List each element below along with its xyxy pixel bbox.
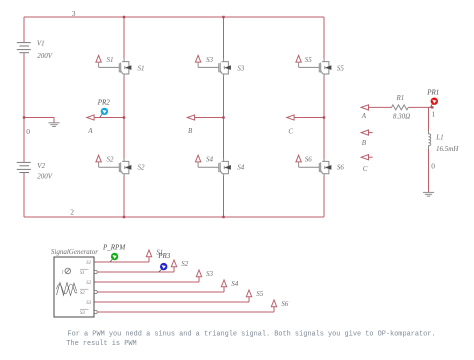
svg-text:S3: S3 bbox=[80, 311, 85, 316]
svg-text:S6: S6 bbox=[281, 300, 289, 308]
wire L1 to ground bbox=[428, 150, 430, 193]
junction top rail leg2 bbox=[222, 16, 224, 18]
svg-text:C: C bbox=[288, 128, 293, 136]
transistor S6 bbox=[299, 159, 332, 177]
connector S5 stair bbox=[246, 290, 251, 302]
wire left column V1 top bbox=[23, 17, 25, 42]
svg-text:S3: S3 bbox=[86, 301, 91, 306]
transistor S5 bbox=[299, 59, 332, 77]
svg-text:S4: S4 bbox=[206, 156, 214, 164]
probe PR3 bbox=[159, 270, 162, 272]
wire leg2 bottom bbox=[223, 176, 225, 217]
wire conn A to R1 bbox=[369, 106, 392, 108]
svg-text:3: 3 bbox=[72, 9, 76, 18]
inductor L1 bbox=[429, 131, 431, 149]
wire leg3 top bbox=[323, 17, 325, 59]
wire node 0 to V2 top bbox=[23, 118, 25, 162]
sg bubble row6 bbox=[94, 310, 97, 313]
svg-text:S1: S1 bbox=[107, 56, 114, 64]
svg-text:S1: S1 bbox=[80, 271, 85, 276]
connector A right bbox=[361, 105, 368, 110]
sg waveform bbox=[57, 283, 77, 296]
svg-text:0: 0 bbox=[26, 127, 30, 136]
wire R1 to node 1 bbox=[408, 106, 433, 108]
svg-text:A: A bbox=[361, 112, 367, 120]
junction node 1 right bbox=[431, 106, 433, 108]
svg-text:S3: S3 bbox=[237, 64, 245, 72]
junction node A bbox=[123, 116, 125, 118]
connector S1 stair bbox=[146, 250, 151, 262]
transistor S3 bbox=[198, 59, 231, 77]
connector S2 gate bbox=[96, 155, 101, 167]
transistor S1 bbox=[99, 59, 132, 77]
connector S4 gate bbox=[195, 155, 200, 167]
wire leg2 top bbox=[223, 17, 225, 59]
connector S1 gate bbox=[96, 55, 101, 67]
svg-text:V2: V2 bbox=[37, 162, 45, 170]
battery V1 bbox=[17, 43, 31, 53]
wire V2 bottom to rail 2 bbox=[23, 173, 25, 217]
wire sg row1 bbox=[94, 261, 149, 263]
svg-text:A: A bbox=[87, 127, 93, 135]
svg-text:1: 1 bbox=[432, 110, 436, 119]
resistor R1 bbox=[392, 105, 409, 110]
connector B out bbox=[187, 115, 194, 120]
svg-text:B: B bbox=[188, 127, 193, 135]
wire sg row3 bbox=[94, 281, 199, 283]
wire node A bbox=[94, 117, 124, 119]
transistor S2 bbox=[99, 159, 132, 177]
svg-text:S2: S2 bbox=[80, 291, 85, 296]
svg-text:S3: S3 bbox=[206, 270, 214, 278]
sg bubble row2 bbox=[94, 270, 97, 273]
sg bubble row4 bbox=[94, 290, 97, 293]
svg-text:1: 1 bbox=[62, 271, 64, 276]
svg-text:PR2: PR2 bbox=[97, 99, 111, 107]
svg-text:PR3: PR3 bbox=[157, 252, 171, 260]
wire node C bbox=[294, 117, 324, 119]
svg-text:S5: S5 bbox=[337, 64, 345, 72]
junction node B bbox=[222, 116, 224, 118]
junction node C bbox=[323, 116, 325, 118]
connector A out bbox=[87, 115, 94, 120]
svg-text:S2: S2 bbox=[181, 260, 189, 268]
wire leg2 mid bbox=[223, 76, 225, 159]
wire net 2 bottom rail bbox=[24, 216, 324, 218]
svg-text:S6: S6 bbox=[305, 156, 313, 164]
svg-text:S6: S6 bbox=[337, 163, 345, 171]
wire node 0 to ground bbox=[24, 118, 54, 123]
wire conn B stub bbox=[369, 132, 373, 134]
connector S5 gate bbox=[296, 55, 301, 67]
junction bottom rail leg2 bbox=[222, 216, 224, 218]
probe PR1 bbox=[431, 104, 433, 107]
svg-text:C: C bbox=[363, 165, 368, 173]
svg-text:S2: S2 bbox=[86, 281, 91, 286]
svg-text:0: 0 bbox=[431, 162, 435, 171]
svg-text:S1: S1 bbox=[86, 261, 91, 266]
svg-text:L1: L1 bbox=[435, 133, 443, 141]
svg-text:B: B bbox=[362, 139, 367, 147]
connector B right bbox=[361, 130, 368, 135]
svg-text:8.30Ω: 8.30Ω bbox=[393, 112, 410, 120]
svg-text:S4: S4 bbox=[237, 163, 245, 171]
svg-text:For a PWM you nedd a sinus and: For a PWM you nedd a sinus and a triangl… bbox=[68, 330, 436, 338]
connector C out bbox=[287, 115, 294, 120]
svg-text:S2: S2 bbox=[107, 156, 115, 164]
wire sg row6 bbox=[97, 311, 274, 313]
connector S4 stair bbox=[221, 280, 226, 292]
wire leg1 bottom bbox=[123, 176, 125, 217]
wire node B bbox=[195, 117, 224, 119]
svg-text:PR1: PR1 bbox=[426, 88, 439, 96]
junction node 0 left bbox=[23, 116, 25, 118]
transistor S4 bbox=[198, 159, 231, 177]
connector S6 gate bbox=[296, 155, 301, 167]
svg-text:16.5mH: 16.5mH bbox=[436, 145, 459, 153]
svg-text:S5: S5 bbox=[305, 56, 313, 64]
wire leg1 top bbox=[123, 17, 125, 59]
svg-text:200V: 200V bbox=[37, 52, 53, 60]
ground left bbox=[48, 123, 59, 127]
connector S3 gate bbox=[195, 55, 200, 67]
wire sg row5 bbox=[94, 301, 249, 303]
svg-text:S1: S1 bbox=[138, 64, 145, 72]
junction top rail leg1 bbox=[123, 16, 125, 18]
wire leg3 bottom bbox=[323, 176, 325, 217]
wire sg row4 bbox=[97, 291, 224, 293]
connector C right bbox=[361, 155, 368, 160]
probe P_RPM bbox=[110, 259, 112, 262]
svg-text:P_RPM: P_RPM bbox=[102, 244, 126, 252]
svg-text:S2: S2 bbox=[138, 163, 146, 171]
wire V1 bottom to node 0 bbox=[23, 53, 25, 117]
connector S2 stair bbox=[171, 260, 176, 272]
svg-text:The result is PWM: The result is PWM bbox=[66, 340, 136, 348]
ground right bbox=[423, 192, 434, 196]
wire leg1 mid bbox=[123, 76, 125, 159]
connector S3 stair bbox=[196, 270, 201, 282]
svg-text:V1: V1 bbox=[37, 40, 45, 48]
svg-text:S5: S5 bbox=[256, 290, 264, 298]
wire node 1 down to L1 bbox=[428, 107, 430, 131]
battery V2 bbox=[17, 162, 31, 172]
svg-text:S4: S4 bbox=[231, 280, 239, 288]
svg-text:SignalGenerator: SignalGenerator bbox=[51, 248, 98, 256]
junction bottom rail leg1 bbox=[123, 216, 125, 218]
svg-text:R1: R1 bbox=[396, 94, 405, 102]
wire conn C stub bbox=[369, 156, 373, 158]
svg-text:200V: 200V bbox=[37, 173, 53, 181]
wire net 3 top rail bbox=[24, 16, 324, 18]
svg-text:S3: S3 bbox=[206, 56, 214, 64]
svg-text:2: 2 bbox=[70, 207, 74, 216]
probe PR2 bbox=[100, 114, 102, 117]
wire sg row2 bbox=[97, 271, 174, 273]
wire leg3 mid bbox=[323, 76, 325, 159]
connector S6 stair bbox=[271, 300, 276, 312]
